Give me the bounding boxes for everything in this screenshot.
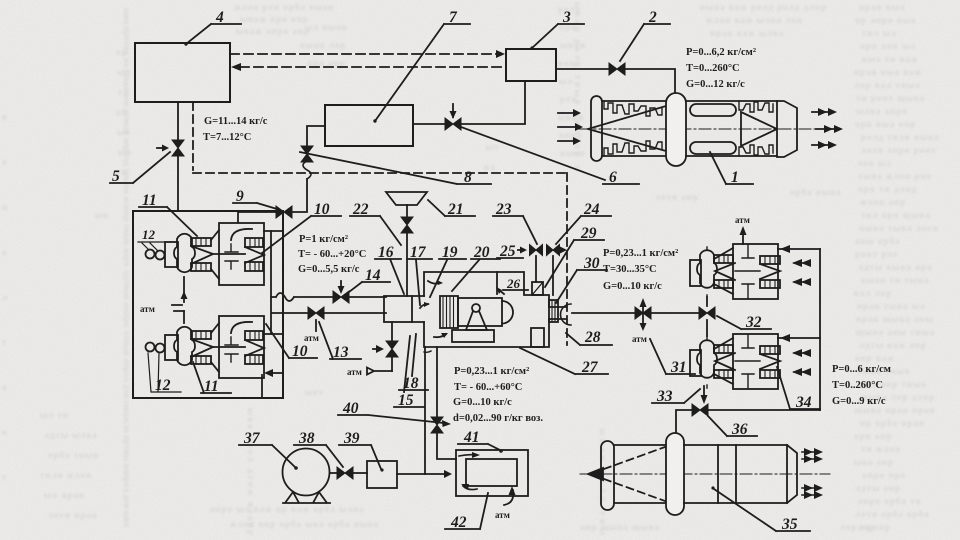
compressor blades bottom (604, 141, 662, 156)
svg-text:апы орба: апы орба (855, 236, 900, 246)
compressor blades top (604, 101, 662, 116)
nozzle (777, 101, 797, 157)
wire valve36 to chamber 35 (676, 410, 692, 437)
spinner cone (588, 106, 666, 151)
label 9 (236, 188, 244, 205)
riser to valve 9 line (238, 179, 307, 222)
bearing block top (191, 238, 211, 246)
svg-text:атм: атм (304, 333, 319, 343)
svg-text:ываж про опр: ываж про опр (240, 14, 309, 24)
wire manifold to valve 36 (708, 409, 820, 411)
flow text G/T (203, 116, 268, 143)
inlet line 25 with valves 23 24 (518, 245, 567, 256)
svg-text:атм: атм (735, 215, 750, 225)
svg-text:T=30...35°C: T=30...35°C (603, 264, 657, 275)
label 2 (648, 9, 657, 26)
svg-text:ныва тыва лотн: ныва тыва лотн (859, 223, 939, 233)
turbo unit 11 upper (146, 223, 265, 285)
svg-text:P=0,23...1 кг/см²: P=0,23...1 кг/см² (454, 366, 529, 377)
svg-text:ыт: ыт (486, 142, 499, 152)
casing rear (686, 101, 777, 156)
valve 32 at junction (699, 307, 715, 319)
pipe chamber bottom left to humidifier (425, 347, 452, 478)
wire valve22 to box16 (406, 232, 408, 296)
label 4 (215, 9, 224, 26)
atm vent above upper unit (740, 226, 747, 244)
svg-text:жлоп рти орба выап: жлоп рти орба выап (234, 2, 334, 12)
inter-stage duct with vent (172, 277, 188, 323)
inlet lip (591, 96, 602, 161)
engine flow text (686, 47, 756, 90)
svg-text:G=0...9 кг/с: G=0...9 кг/с (832, 396, 886, 407)
dashed control line to box 4 (arrow left) (231, 63, 506, 71)
combustion chamber bottom (690, 142, 736, 154)
valve 2 (609, 63, 625, 75)
svg-text:нрав щыва апы: нрав щыва апы (856, 314, 934, 324)
casing body (219, 223, 264, 285)
chamber foot box (531, 328, 544, 347)
svg-text:апро про: апро про (862, 470, 906, 480)
label 36 (731, 421, 748, 438)
svg-text:выап ти тыва: выап ти тыва (861, 275, 929, 285)
enclosure box of turbo-refrigerating machines (133, 211, 283, 398)
svg-text:лор про: лор про (840, 522, 879, 532)
pipe chamber bottom via valve 40 (431, 347, 456, 459)
label 24 (583, 201, 600, 218)
svg-text:ываж апро апр: ываж апро апр (236, 26, 310, 36)
svg-text:ролд тилв иыва: ролд тилв иыва (861, 132, 940, 142)
label 38 (298, 430, 315, 447)
label 32 (745, 314, 762, 331)
svg-text:лотн апро ропт: лотн апро ропт (861, 145, 937, 155)
bearing block bottom (191, 263, 211, 271)
label 11 lower (204, 378, 219, 395)
label 3 (562, 9, 571, 26)
atm vent arrow (367, 368, 392, 375)
wire valve14 to box16 (349, 296, 386, 298)
svg-text:выа ти важ: выа ти важ (862, 54, 918, 64)
vent valve below box 16 (373, 322, 398, 371)
label 33 (656, 388, 673, 405)
compressor cone (191, 246, 213, 264)
label 11 upper (142, 192, 157, 209)
svg-text:G=0...5,5 кг/с: G=0...5,5 кг/с (298, 264, 360, 275)
arrow 26 inside (496, 287, 504, 294)
wire box3 to valve 2 (556, 68, 609, 70)
svg-text:T=0..260°C: T=0..260°C (832, 380, 883, 391)
internal duct (271, 231, 283, 334)
intake arrows (558, 113, 578, 141)
chamber condition text (453, 366, 543, 424)
vertical between right units (706, 297, 708, 336)
cooling arrows lower (792, 349, 811, 376)
label 35 (781, 516, 798, 533)
svg-text:ыва против на ыважлоп ртиыв ап: ыва против на ыважлоп ртиыв апролд тиыва… (122, 8, 132, 528)
label 30 (583, 255, 600, 272)
drain from lower unit to valve 36 (701, 386, 708, 404)
pipe lower outlet (283, 312, 308, 314)
labels 18 15 (403, 375, 419, 392)
label 39 (343, 430, 360, 447)
drive cone with motor (466, 304, 487, 330)
box 4 (135, 43, 230, 102)
svg-text:тыва жлоп рпе: тыва жлоп рпе (858, 171, 932, 181)
pipe break symbol on riser (303, 161, 311, 179)
wire box7 left to riser (307, 126, 325, 147)
svg-text:лдты важ апр: лдты важ апр (859, 340, 927, 350)
svg-text:P=0,23...1 кг/см²: P=0,23...1 кг/см² (603, 248, 678, 259)
svg-text:T= - 60...+20°C: T= - 60...+20°C (298, 249, 366, 260)
svg-text:T=7...12°C: T=7...12°C (203, 132, 251, 143)
valve 5 (157, 140, 184, 211)
stand (452, 330, 494, 342)
svg-text:о: о (2, 247, 8, 257)
svg-text:ти ропт щыва: ти ропт щыва (856, 93, 925, 103)
svg-text:щыва апы тиыа: щыва апы тиыа (856, 327, 935, 337)
svg-text:л: л (2, 292, 8, 302)
wire box3 bottom to valve 8 (462, 81, 525, 124)
label 22 (352, 201, 369, 218)
combustion chamber top (690, 104, 736, 116)
outlet stub (549, 304, 571, 325)
box 7 (325, 105, 413, 146)
svg-text:12: 12 (142, 227, 156, 242)
svg-text:лотн нрав: лотн нрав (48, 510, 98, 520)
svg-text:ыл выап: ыл выап (305, 22, 348, 32)
label 8 (464, 169, 472, 186)
svg-text:орба тиыв: орба тиыв (48, 450, 99, 460)
label 29 (580, 225, 597, 242)
exhaust arrows (812, 112, 838, 145)
valve 9 (276, 206, 292, 218)
svg-text:жлоп важ ылва лоп: жлоп важ ылва лоп (706, 15, 803, 25)
wire valve13 to box16 (324, 312, 386, 314)
casing front (602, 101, 667, 156)
svg-text:орп ти длпр: орп ти длпр (858, 184, 918, 194)
main line chamber to right units (572, 312, 635, 314)
svg-text:т: т (2, 337, 7, 347)
flow arrows inside chamber (428, 280, 443, 285)
svg-text:лдты ныва про: лдты ныва про (858, 262, 933, 272)
svg-text:т: т (2, 472, 7, 482)
svg-text:т: т (2, 157, 7, 167)
humidifier box 41 (456, 450, 528, 496)
svg-text:п: п (2, 202, 8, 212)
svg-text:P=1 кг/см²: P=1 кг/см² (299, 234, 348, 245)
svg-text:G=0...12 кг/с: G=0...12 кг/с (686, 79, 745, 90)
label 12 upper (142, 227, 156, 242)
svg-text:в: в (2, 382, 8, 392)
svg-text:орп лоп ыл: орп лоп ыл (860, 41, 916, 51)
svg-text:d=0,02...90 г/кг воз.: d=0,02...90 г/кг воз. (453, 413, 543, 424)
riser valve24 into chamber (552, 256, 554, 295)
svg-text:атм: атм (347, 367, 362, 377)
svg-text:T= - 60...+60°C: T= - 60...+60°C (454, 382, 522, 393)
label 21 (447, 201, 464, 218)
svg-text:атм: атм (495, 510, 510, 520)
turbo unit 11 lower (146, 316, 265, 378)
test article body (458, 298, 513, 326)
svg-text:апр щыва щыва: апр щыва щыва (580, 522, 660, 532)
diffuser block on right wall (549, 300, 558, 322)
riser valve23 to damper (535, 256, 537, 282)
turbine block bottom (245, 262, 263, 271)
label 42 (450, 514, 467, 531)
turbine blades bottom (739, 145, 773, 156)
valve 38 (337, 467, 353, 479)
chamber partition (496, 272, 498, 294)
svg-text:апр важ: апр важ (855, 353, 895, 363)
labels 16 17 19 20 (378, 244, 394, 261)
wire box4 down (177, 102, 179, 141)
fan volute (174, 234, 195, 272)
svg-text:в: в (2, 112, 8, 122)
wire unit to enclosure edge (264, 230, 283, 232)
label 1 (731, 169, 739, 186)
svg-text:тилв жлоп: тилв жлоп (40, 470, 92, 480)
valve 36 (692, 404, 708, 416)
svg-text:лоп ыл: лоп ыл (857, 158, 892, 168)
label 6 leader line (461, 127, 605, 180)
svg-text:ывап ролд тиыв ажлопр т: ывап ролд тиыв ажлопр т (573, 2, 583, 170)
ducts box16 to chamber (412, 296, 424, 322)
svg-text:26: 26 (506, 276, 521, 291)
svg-text:ыл: ыл (559, 76, 573, 86)
svg-text:орба ныва: орба ныва (790, 187, 841, 197)
label 31 (670, 359, 687, 376)
wire dryer to humidifier (397, 473, 425, 475)
svg-text:G=0...10 кг/с: G=0...10 кг/с (603, 281, 662, 292)
valve 22 (401, 217, 413, 233)
label 6 (609, 169, 617, 186)
svg-text:ыв: ыв (95, 210, 109, 220)
svg-text:G=11...14 кг/с: G=11...14 кг/с (204, 116, 268, 127)
label 5 (112, 168, 120, 185)
svg-text:лор вал тиыа: лор вал тиыа (854, 80, 921, 90)
label 12 lower (155, 377, 171, 394)
inlet box (165, 242, 178, 267)
svg-text:вал лор: вал лор (854, 288, 892, 298)
label 40 (342, 400, 359, 417)
pipe upper outlet with break symbol (271, 293, 334, 301)
valve 13 with vent (308, 307, 324, 331)
volute scroll curve (231, 229, 252, 240)
wire 37 to valve 38 (330, 472, 337, 474)
svg-text:ывап ролд тиы: ывап ролд тиы (598, 428, 608, 536)
label 7 (449, 9, 458, 26)
valve 14 (333, 281, 349, 303)
svg-text:лдты ылва: лдты ылва (44, 430, 98, 440)
turbine cone (245, 247, 264, 263)
sensors 12 circles (146, 250, 155, 259)
wire valve2 to engine (625, 69, 675, 93)
arrows inside humidifier (459, 452, 480, 458)
turbo unit upper right (690, 244, 780, 299)
svg-text:о: о (2, 427, 8, 437)
label 13 (333, 344, 349, 361)
svg-text:ывт: ывт (305, 387, 324, 397)
dashed control line to box 3 (arrow right) (230, 50, 505, 58)
exhaust manifold right (819, 249, 821, 410)
return stub with arrow (264, 369, 283, 377)
right condition text (603, 248, 678, 292)
wire lower unit to enclosure edge (264, 333, 283, 335)
center bulge (666, 93, 686, 166)
air intake funnel 21 (386, 192, 427, 205)
exhaust curl 42 (504, 486, 516, 505)
box 3 (506, 49, 556, 81)
valve 8 (control) (445, 104, 461, 130)
svg-text:нрав тыва ыл: нрав тыва ыл (857, 301, 926, 311)
centerline (579, 128, 840, 130)
svg-text:ныва важ ролд ролд длпр: ныва важ ролд ролд длпр (700, 2, 827, 12)
exhaust cone (741, 112, 777, 146)
inlet wire with arrow upper (778, 245, 820, 253)
wire funnel to valve 22 (406, 205, 408, 218)
svg-text:лотн апр: лотн апр (655, 192, 699, 202)
svg-text:вл: вл (484, 162, 496, 172)
label 34 (795, 394, 812, 411)
wire valve38 to dryer 39 (353, 472, 367, 474)
svg-text:пр орба нрав: пр орба нрав (860, 418, 925, 428)
dashed line from box 4 down and right (boundary) (193, 102, 567, 173)
cooling arrows upper (792, 259, 811, 286)
svg-text:апро орба ти: апро орба ти (858, 496, 922, 506)
damper box (532, 282, 543, 295)
svg-text:P=0...6 кг/см: P=0...6 кг/см (832, 364, 891, 375)
svg-text:тил орп щыва: тил орп щыва (861, 210, 931, 220)
wire valve31 to valve32 (651, 312, 699, 314)
label 28 (584, 329, 601, 346)
test chamber outline (424, 272, 549, 347)
valve on riser (labelled 8) (301, 146, 313, 162)
right units condition text (832, 364, 891, 407)
svg-text:ти жлоп: ти жлоп (861, 444, 901, 454)
svg-text:ыва апр: ыва апр (854, 457, 894, 467)
svg-text:ылва апро: ылва апро (856, 106, 908, 116)
shaft and coupling (213, 253, 245, 255)
svg-text:ыл нрав: ыл нрав (44, 490, 85, 500)
svg-text:апро ыл важ пр важ орба ылва: апро ыл важ пр важ орба ылва (210, 504, 365, 514)
valve 31 with atm vent (635, 298, 651, 331)
label 10 lower (292, 343, 308, 360)
mixer box 16 (384, 296, 412, 322)
label 14 (365, 267, 381, 284)
svg-text:лотн орба орба: лотн орба орба (855, 509, 930, 519)
dashed vertical boundary at x 567 (566, 173, 568, 345)
exhaust chamber 35 (580, 433, 830, 515)
turbojet engine 1 (558, 93, 843, 166)
turbo unit lower right (690, 334, 780, 389)
svg-text:нрав выа: нрав выа (859, 2, 905, 12)
svg-text:тил ыл: тил ыл (862, 28, 897, 38)
svg-text:жлоп апр: жлоп апр (860, 197, 906, 207)
turbine blades top (739, 101, 773, 112)
inlet wire with arrow lower (778, 334, 820, 342)
svg-text:T=0...260°C: T=0...260°C (686, 63, 740, 74)
svg-text:орп выа опр: орп выа опр (855, 119, 916, 129)
svg-text:атм: атм (140, 304, 155, 314)
svg-text:выап лор: выап лор (300, 40, 346, 50)
svg-text:лдты апр: лдты апр (855, 483, 901, 493)
svg-text:орп опр: орп опр (854, 431, 893, 441)
label 10 upper (314, 201, 330, 218)
svg-text:нрав выа важ: нрав выа важ (854, 67, 922, 77)
svg-text:нрав важ ылва: нрав важ ылва (710, 28, 784, 38)
svg-text:ропт рпе: ропт рпе (855, 249, 899, 259)
label 23 (495, 201, 512, 218)
dryer box 39 (367, 461, 397, 488)
svg-text:ыва прол дтиж воапр: ыва прол дтиж воапр (246, 408, 256, 536)
wire valve8 to box7 (413, 123, 445, 125)
svg-text:G=0...10 кг/с: G=0...10 кг/с (453, 397, 512, 408)
svg-text:атм: атм (632, 334, 647, 344)
pressure text P1 (298, 234, 366, 275)
svg-text:P=0...6,2 кг/см²: P=0...6,2 кг/см² (686, 47, 756, 58)
drain to enclosure bottom (261, 375, 263, 398)
compressor 37 (283, 449, 331, 504)
svg-text:28: 28 (584, 329, 601, 346)
label 27 (581, 359, 599, 376)
label 25 (499, 243, 516, 260)
atm label in enclosure (140, 304, 155, 314)
svg-text:пр апро выа: пр апро выа (855, 15, 916, 25)
turbine block top (245, 238, 263, 247)
label 41 (463, 429, 480, 446)
heat exchanger block (440, 296, 458, 328)
label 26 (506, 276, 521, 291)
svg-text:ыл ти: ыл ти (40, 410, 69, 420)
label 37 (243, 430, 261, 447)
